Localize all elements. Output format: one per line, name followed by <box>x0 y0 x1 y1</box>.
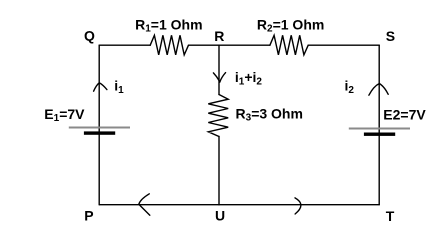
arrow on bottom wire pointing left <box>139 194 150 216</box>
svg-text:P: P <box>84 208 93 224</box>
battery E1 short plate <box>84 131 115 134</box>
arrow i2 up right branch <box>369 84 388 96</box>
svg-text:R: R <box>214 28 224 44</box>
wire R2 to S <box>308 44 379 46</box>
svg-text:E1=7V: E1=7V <box>44 106 85 124</box>
resistor R3 <box>208 95 228 137</box>
battery E2 short plate <box>364 133 395 136</box>
svg-text:R2=1 Ohm: R2=1 Ohm <box>257 17 324 35</box>
wire Q to R1 <box>99 44 150 46</box>
wire P to U <box>99 204 219 206</box>
svg-text:U: U <box>215 208 225 224</box>
svg-text:E2=7V: E2=7V <box>383 107 426 123</box>
wire node R to R2 <box>219 44 270 46</box>
svg-text:R3=3 Ohm: R3=3 Ohm <box>236 106 303 124</box>
wire U to T <box>219 204 379 206</box>
svg-text:S: S <box>386 28 395 44</box>
wire middle top node R down <box>218 45 220 94</box>
svg-text:T: T <box>386 208 395 224</box>
arrow on bottom wire pointing right <box>295 198 301 214</box>
battery E1 long plate <box>69 127 130 129</box>
wire right branch S to T through E2 <box>378 45 380 205</box>
svg-text:i1: i1 <box>114 78 124 97</box>
arrow i1 up left branch <box>94 83 107 91</box>
arrow i1+i2 down middle branch <box>213 73 225 83</box>
wire R1 to node R <box>189 44 220 46</box>
resistor R2 <box>270 35 308 55</box>
svg-text:Q: Q <box>84 28 95 44</box>
resistor R1 <box>150 35 188 55</box>
wire left branch Q to P through E1 <box>98 45 100 205</box>
battery E2 long plate <box>349 128 410 130</box>
wire middle bottom to U <box>218 137 220 205</box>
svg-text:i1+i2: i1+i2 <box>235 69 263 88</box>
svg-text:R1=1 Ohm: R1=1 Ohm <box>135 17 202 35</box>
svg-text:i2: i2 <box>345 78 355 97</box>
